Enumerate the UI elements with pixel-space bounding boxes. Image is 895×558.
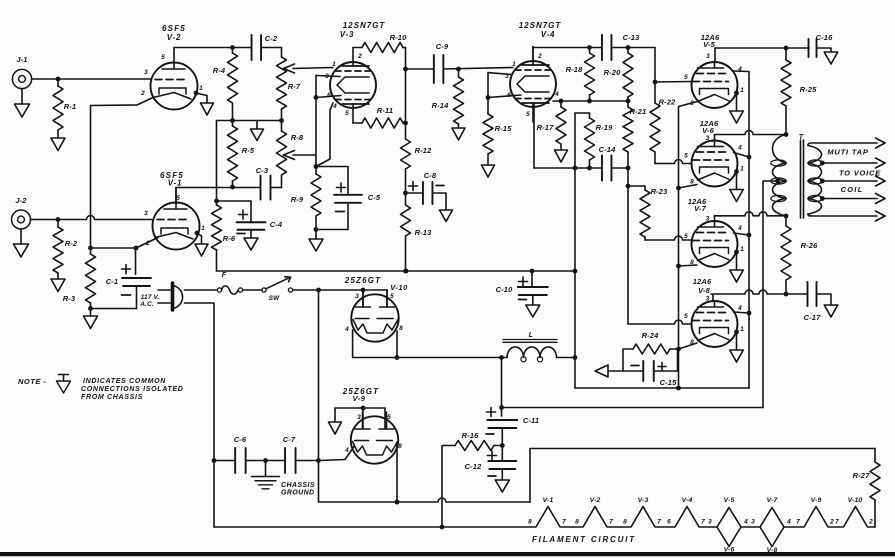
svg-text:1: 1 — [740, 87, 744, 94]
svg-text:J-1: J-1 — [16, 55, 27, 64]
svg-text:TO VOICE: TO VOICE — [839, 169, 881, 178]
svg-text:12A6: 12A6 — [693, 277, 712, 286]
svg-text:V-9: V-9 — [353, 394, 366, 403]
svg-text:R-23: R-23 — [651, 187, 669, 196]
svg-text:COIL: COIL — [841, 185, 864, 194]
svg-text:8: 8 — [528, 519, 532, 526]
svg-text:FILAMENT CIRCUIT: FILAMENT CIRCUIT — [532, 535, 636, 544]
svg-text:R-19: R-19 — [596, 123, 614, 132]
svg-text:NOTE -: NOTE - — [18, 377, 46, 386]
svg-text:8: 8 — [623, 519, 627, 526]
svg-text:7: 7 — [609, 519, 613, 526]
svg-text:2: 2 — [357, 53, 362, 60]
svg-text:R-1: R-1 — [64, 102, 77, 111]
svg-text:C-1: C-1 — [106, 277, 119, 286]
svg-text:2: 2 — [140, 90, 145, 97]
svg-text:2: 2 — [868, 519, 873, 526]
svg-text:V-1: V-1 — [543, 497, 554, 504]
svg-text:V-3: V-3 — [340, 30, 355, 39]
svg-text:R-18: R-18 — [566, 65, 584, 74]
svg-text:R-14: R-14 — [432, 101, 450, 110]
svg-text:3: 3 — [706, 135, 710, 142]
svg-text:C-5: C-5 — [368, 193, 381, 202]
svg-text:C-16: C-16 — [816, 33, 834, 42]
svg-text:5: 5 — [684, 153, 688, 160]
svg-text:3: 3 — [708, 519, 712, 526]
svg-text:4: 4 — [344, 326, 349, 333]
svg-text:2: 2 — [145, 240, 150, 247]
svg-text:5: 5 — [684, 233, 688, 240]
svg-text:V-5: V-5 — [703, 40, 716, 49]
svg-text:8: 8 — [575, 519, 579, 526]
svg-text:2: 2 — [829, 519, 834, 526]
svg-text:5: 5 — [176, 195, 180, 202]
svg-text:3: 3 — [144, 69, 148, 76]
svg-text:6: 6 — [327, 92, 331, 99]
svg-text:4: 4 — [737, 305, 742, 312]
svg-text:1: 1 — [512, 61, 516, 68]
svg-text:C-8: C-8 — [424, 171, 437, 180]
svg-text:C-15: C-15 — [660, 378, 678, 387]
svg-text:2: 2 — [537, 53, 542, 60]
svg-text:INDICATES COMMON: INDICATES COMMON — [83, 378, 166, 385]
svg-text:1: 1 — [740, 246, 744, 253]
svg-text:L: L — [529, 332, 533, 339]
svg-text:7: 7 — [835, 519, 839, 526]
svg-text:6SF5: 6SF5 — [162, 24, 186, 33]
svg-text:V-8: V-8 — [698, 286, 711, 295]
svg-text:C-17: C-17 — [804, 313, 822, 322]
svg-text:R-21: R-21 — [630, 107, 647, 116]
svg-text:8: 8 — [398, 443, 402, 450]
svg-text:R-17: R-17 — [537, 123, 555, 132]
svg-text:R-6: R-6 — [223, 234, 236, 243]
svg-text:R-26: R-26 — [801, 241, 819, 250]
svg-text:1: 1 — [740, 166, 744, 173]
svg-text:V-3: V-3 — [638, 497, 649, 504]
svg-text:R-11: R-11 — [377, 106, 393, 115]
svg-text:R-25: R-25 — [800, 85, 818, 94]
svg-text:A.C.: A.C. — [139, 301, 154, 308]
svg-text:R-16: R-16 — [462, 431, 480, 440]
svg-text:V-5: V-5 — [724, 497, 735, 504]
svg-text:C-7: C-7 — [283, 435, 296, 444]
svg-text:12SN7GT: 12SN7GT — [519, 21, 562, 30]
svg-text:MUTI TAP: MUTI TAP — [827, 148, 868, 157]
svg-text:V-7: V-7 — [694, 204, 707, 213]
svg-text:R-13: R-13 — [415, 228, 433, 237]
svg-text:V-10: V-10 — [390, 283, 408, 292]
svg-text:GROUND: GROUND — [281, 490, 315, 497]
svg-text:R-20: R-20 — [604, 68, 622, 77]
svg-text:5: 5 — [387, 414, 391, 421]
svg-text:C-11: C-11 — [523, 416, 539, 425]
svg-text:4: 4 — [737, 225, 742, 232]
svg-text:117 V.: 117 V. — [141, 294, 160, 301]
svg-text:V-7: V-7 — [767, 497, 779, 504]
svg-text:F: F — [222, 272, 227, 279]
svg-text:4: 4 — [743, 519, 748, 526]
svg-text:R-8: R-8 — [291, 133, 304, 142]
svg-text:5: 5 — [526, 111, 530, 118]
svg-text:12SN7GT: 12SN7GT — [343, 21, 386, 30]
svg-text:1: 1 — [201, 225, 205, 232]
svg-text:R-9: R-9 — [291, 195, 304, 204]
svg-text:4: 4 — [786, 519, 791, 526]
svg-text:R-27: R-27 — [853, 471, 871, 480]
svg-text:5: 5 — [684, 74, 688, 81]
svg-text:V-9: V-9 — [811, 497, 822, 504]
svg-text:R-7: R-7 — [288, 82, 301, 91]
svg-text:CONNECTIONS ISOLATED: CONNECTIONS ISOLATED — [81, 386, 184, 393]
svg-text:C-3: C-3 — [256, 166, 269, 175]
svg-text:3: 3 — [355, 293, 359, 300]
svg-text:7: 7 — [796, 519, 800, 526]
svg-text:C-14: C-14 — [599, 145, 617, 154]
svg-text:7: 7 — [562, 519, 566, 526]
svg-text:R-12: R-12 — [415, 146, 433, 155]
svg-text:V-10: V-10 — [848, 497, 863, 504]
svg-text:C-10: C-10 — [496, 285, 514, 294]
svg-text:V-4: V-4 — [682, 497, 693, 504]
svg-text:V-4: V-4 — [541, 30, 556, 39]
svg-text:V-1: V-1 — [168, 179, 183, 188]
svg-text:1: 1 — [332, 61, 336, 68]
svg-text:6: 6 — [667, 519, 671, 526]
svg-text:J-2: J-2 — [15, 196, 27, 205]
svg-text:4: 4 — [554, 91, 559, 98]
svg-text:3: 3 — [706, 53, 710, 60]
svg-text:7: 7 — [701, 519, 705, 526]
svg-text:3: 3 — [357, 414, 361, 421]
svg-text:3: 3 — [144, 210, 148, 217]
svg-text:V-2: V-2 — [590, 497, 601, 504]
svg-text:3: 3 — [706, 216, 710, 223]
svg-text:5: 5 — [345, 110, 349, 117]
svg-text:5: 5 — [390, 293, 394, 300]
svg-text:4: 4 — [344, 447, 349, 454]
svg-text:C-12: C-12 — [465, 462, 483, 471]
svg-text:5: 5 — [161, 54, 165, 61]
svg-text:1: 1 — [740, 326, 744, 333]
svg-text:R-15: R-15 — [495, 124, 513, 133]
svg-text:7: 7 — [657, 519, 661, 526]
svg-text:R-22: R-22 — [659, 98, 677, 107]
svg-text:CHASSIS: CHASSIS — [281, 482, 315, 489]
svg-text:8: 8 — [399, 325, 403, 332]
svg-text:R-10: R-10 — [390, 33, 408, 42]
svg-text:3: 3 — [706, 296, 710, 303]
svg-text:C-9: C-9 — [436, 42, 449, 51]
svg-text:4: 4 — [737, 145, 742, 152]
svg-text:R-4: R-4 — [213, 66, 226, 75]
svg-text:C-2: C-2 — [265, 34, 278, 43]
svg-text:R-2: R-2 — [65, 239, 78, 248]
svg-text:V-2: V-2 — [167, 33, 182, 42]
svg-text:C-13: C-13 — [623, 33, 641, 42]
svg-text:R-5: R-5 — [242, 146, 255, 155]
svg-text:FROM CHASSIS: FROM CHASSIS — [81, 394, 143, 401]
svg-text:SW: SW — [269, 295, 280, 302]
svg-text:C-6: C-6 — [234, 435, 247, 444]
svg-text:R-3: R-3 — [63, 294, 76, 303]
svg-text:1: 1 — [199, 85, 203, 92]
svg-text:V-6: V-6 — [702, 126, 715, 135]
svg-text:C-4: C-4 — [270, 220, 283, 229]
svg-text:25Z6GT: 25Z6GT — [344, 276, 382, 285]
svg-text:5: 5 — [684, 313, 688, 320]
svg-text:3: 3 — [751, 519, 755, 526]
svg-text:R-24: R-24 — [642, 331, 660, 340]
